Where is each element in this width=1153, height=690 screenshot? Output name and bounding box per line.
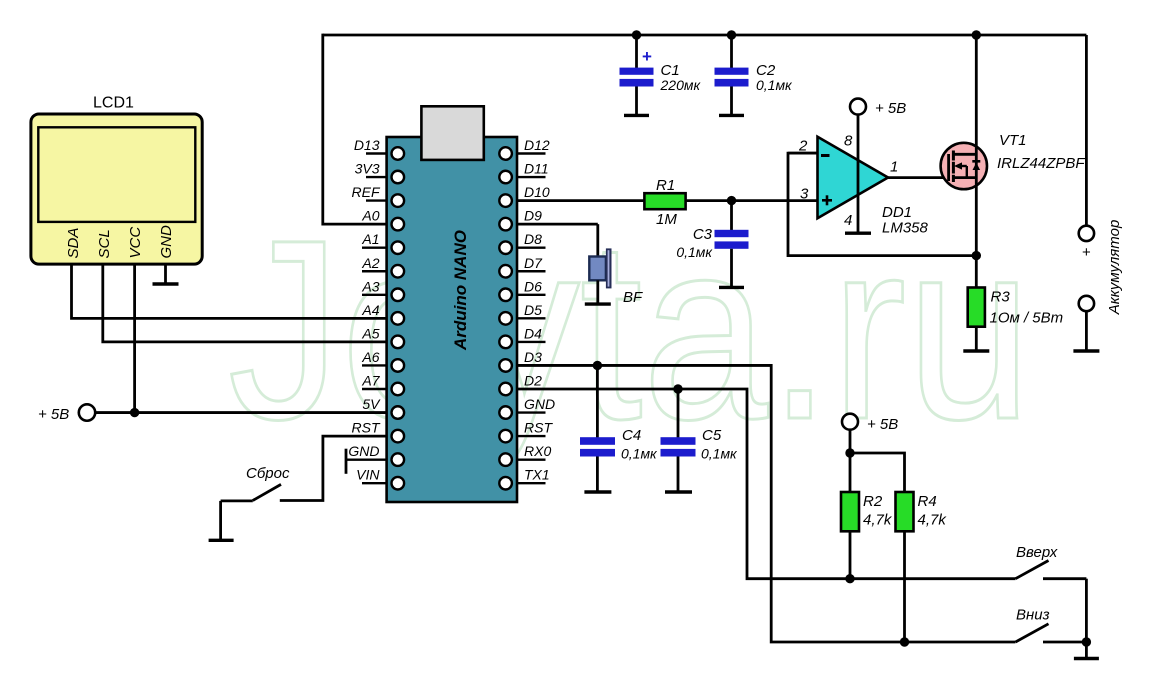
svg-text:A7: A7 — [361, 373, 380, 389]
svg-text:D11: D11 — [524, 161, 549, 177]
LCD1 module — [31, 95, 202, 265]
pin D6 — [517, 278, 546, 295]
resistor R3 — [968, 288, 1063, 351]
pin circles right — [499, 147, 512, 489]
svg-text:D12: D12 — [524, 137, 550, 153]
svg-text:0,1мк: 0,1мк — [701, 446, 738, 462]
pin D4 — [517, 325, 546, 342]
wire R4 bottom — [903, 531, 906, 642]
junction R4 bottom — [900, 637, 909, 646]
buzzer BF — [589, 224, 643, 306]
svg-text:Аккумулятор: Аккумулятор — [1106, 220, 1123, 316]
svg-text:D4: D4 — [524, 325, 542, 341]
svg-text:GND: GND — [524, 396, 555, 412]
transistor VT1 IRLZ44ZPBF — [941, 35, 1086, 288]
junction D2/C5 — [673, 384, 682, 393]
svg-text:IRLZ44ZPBF: IRLZ44ZPBF — [997, 155, 1085, 172]
battery terminal - — [1079, 296, 1094, 351]
pin D13 — [354, 137, 387, 154]
pin RST right — [517, 420, 553, 437]
ground buzzer — [585, 302, 611, 305]
svg-text:A3: A3 — [361, 278, 379, 294]
wire R1 to op-amp pin3 — [686, 199, 818, 202]
svg-text:0,1мк: 0,1мк — [621, 446, 658, 462]
capacitor C1 — [620, 35, 702, 114]
pin A2 — [361, 255, 386, 272]
wire +5V to 5V pin — [95, 411, 386, 414]
svg-text:4: 4 — [844, 212, 852, 229]
svg-text:C4: C4 — [622, 427, 641, 444]
pin A6 — [361, 349, 386, 366]
svg-text:A0: A0 — [361, 208, 379, 224]
pin D2 — [524, 373, 542, 389]
pin A5 — [361, 325, 379, 341]
ground C2 — [719, 114, 744, 117]
capacitor C2 — [715, 35, 794, 114]
pin RST left — [352, 420, 381, 436]
+5V terminal op-amp pin8 — [850, 99, 906, 117]
svg-text:Arduino NANO: Arduino NANO — [451, 230, 470, 351]
wire D3 run — [517, 365, 1016, 642]
pin D8 — [517, 231, 546, 248]
svg-text:4,7k: 4,7k — [918, 512, 948, 529]
svg-text:+: + — [642, 47, 652, 66]
svg-text:8: 8 — [844, 133, 853, 150]
wire rail to battery — [1085, 35, 1088, 226]
svg-text:Вверх: Вверх — [1016, 544, 1058, 561]
wire RST to switch Сброс — [280, 436, 387, 500]
junction R2 bottom — [845, 574, 854, 583]
svg-text:VIN: VIN — [356, 467, 380, 483]
svg-text:D13: D13 — [354, 137, 380, 153]
pin REF — [352, 184, 387, 201]
ground C3 — [719, 286, 744, 289]
wire top +5V rail — [323, 34, 1087, 37]
svg-text:+: + — [1082, 244, 1091, 261]
ground battery — [1073, 349, 1099, 352]
wire LCD GND — [164, 264, 167, 283]
wire +5V to R2 R4 — [849, 430, 852, 492]
Arduino NANO U2 — [387, 106, 517, 502]
svg-text:0,1мк: 0,1мк — [756, 77, 793, 93]
pin A1 — [361, 231, 386, 248]
svg-text:A4: A4 — [361, 302, 379, 318]
pin A7 — [361, 373, 386, 390]
svg-text:+ 5В: + 5В — [38, 406, 69, 423]
pin D7 — [517, 255, 546, 272]
svg-text:RST: RST — [524, 420, 553, 436]
svg-text:BF: BF — [623, 289, 643, 306]
junction buttons/ground — [1082, 637, 1091, 646]
svg-text:D8: D8 — [524, 231, 542, 247]
svg-text:D9: D9 — [524, 208, 542, 224]
pin D3 — [524, 349, 542, 365]
svg-text:4,7k: 4,7k — [863, 512, 893, 529]
switch Вверх — [1016, 544, 1087, 579]
svg-text:REF: REF — [352, 184, 381, 200]
svg-text:1: 1 — [890, 159, 898, 176]
pin D12 — [517, 137, 550, 154]
wire D10 to R1 — [517, 199, 645, 202]
svg-text:VT1: VT1 — [999, 132, 1027, 149]
resistor R1 — [644, 177, 685, 228]
wire R2 bottom — [849, 531, 852, 578]
svg-text:D6: D6 — [524, 278, 542, 294]
junction D3/C4 — [593, 361, 602, 370]
svg-text:DD1: DD1 — [882, 204, 912, 221]
svg-text:3: 3 — [800, 186, 809, 203]
svg-text:C3: C3 — [693, 226, 713, 243]
svg-text:SCL: SCL — [96, 229, 113, 258]
switch Сброс — [221, 465, 290, 501]
pin 3V3 — [355, 161, 387, 178]
wire D2 run — [517, 389, 1016, 579]
svg-text:R2: R2 — [863, 493, 883, 510]
battery terminal + — [1079, 226, 1094, 261]
pin A4 — [361, 302, 379, 318]
wire buttons right vertical — [1085, 579, 1088, 642]
junction rail MOSFET drain — [972, 30, 981, 39]
pin RX0 — [517, 443, 551, 460]
+5V terminal R2/R4 — [842, 414, 898, 433]
svg-text:1Ом / 5Вт: 1Ом / 5Вт — [990, 310, 1064, 327]
ground LCD — [153, 282, 179, 285]
junction R1/C3 — [727, 196, 736, 205]
resistor R2 — [841, 492, 893, 531]
svg-text:LCD1: LCD1 — [93, 95, 134, 112]
svg-text:GND: GND — [348, 443, 379, 459]
wire VCC down — [133, 264, 136, 413]
capacitor C3 — [676, 201, 748, 287]
junction C2 top — [727, 30, 736, 39]
switch Вниз — [1016, 607, 1087, 643]
svg-text:D10: D10 — [524, 184, 550, 200]
svg-text:D7: D7 — [524, 255, 543, 271]
svg-text:C5: C5 — [702, 427, 722, 444]
junction C1 top — [632, 30, 641, 39]
svg-text:TX1: TX1 — [524, 467, 550, 483]
svg-text:Вниз: Вниз — [1016, 607, 1050, 624]
svg-text:D5: D5 — [524, 302, 542, 318]
pin GND left — [346, 443, 387, 474]
svg-text:A5: A5 — [361, 325, 379, 341]
svg-text:0,1мк: 0,1мк — [676, 244, 713, 260]
svg-text:GND: GND — [158, 225, 175, 259]
svg-text:LM358: LM358 — [882, 220, 929, 237]
svg-text:A1: A1 — [361, 231, 379, 247]
wire SDA to A4 — [72, 264, 387, 318]
capacitor C5 — [661, 389, 739, 491]
svg-text:D2: D2 — [524, 373, 542, 389]
pin D10 — [524, 184, 550, 200]
pin D5 — [517, 302, 546, 319]
op-amp U1 DD1 LM358 — [788, 115, 929, 237]
svg-text:R1: R1 — [656, 177, 675, 194]
pin circles left — [392, 147, 405, 489]
ground Сброс — [209, 539, 234, 542]
svg-text:1M: 1M — [656, 211, 677, 228]
junction VCC/5V — [130, 408, 139, 417]
ground C4 — [584, 490, 611, 493]
svg-text:+ 5В: + 5В — [875, 100, 906, 117]
svg-text:3V3: 3V3 — [355, 161, 380, 177]
svg-text:+ 5В: + 5В — [867, 416, 898, 433]
resistor R4 — [896, 492, 948, 531]
pin D9 — [517, 208, 598, 225]
svg-text:RST: RST — [352, 420, 381, 436]
pin VIN — [356, 467, 386, 484]
pin GND right — [517, 396, 555, 413]
svg-text:SDA: SDA — [65, 228, 82, 259]
wire Сброс to ground — [219, 501, 222, 540]
ground buttons — [1074, 642, 1099, 659]
pin TX1 — [517, 467, 550, 484]
svg-text:5V: 5V — [362, 396, 381, 412]
junction R2/R4 top — [845, 448, 854, 457]
wire SCL to A5 — [103, 264, 387, 342]
svg-text:D3: D3 — [524, 349, 542, 365]
+5V terminal left — [38, 404, 95, 423]
pin D11 — [517, 161, 549, 178]
ground C1 — [624, 114, 649, 117]
svg-text:Сброс: Сброс — [246, 465, 290, 482]
svg-text:VCC: VCC — [127, 227, 144, 259]
pin A3 — [361, 278, 386, 295]
svg-text:R4: R4 — [918, 493, 937, 510]
svg-text:RX0: RX0 — [524, 443, 551, 459]
junction source node — [972, 251, 981, 260]
wire rail left down to A0 — [323, 34, 387, 225]
ground R3 — [963, 349, 989, 352]
wire feedback pin2 to source node — [788, 153, 976, 256]
svg-text:A2: A2 — [361, 255, 379, 271]
capacitor C4 — [580, 365, 658, 491]
svg-text:R3: R3 — [991, 289, 1011, 306]
svg-text:A6: A6 — [361, 349, 379, 365]
svg-text:220мк: 220мк — [660, 77, 702, 93]
wire op-amp output to MOSFET gate — [888, 176, 949, 179]
pin 5V — [362, 396, 381, 412]
pin A0 — [361, 208, 379, 224]
ground op-amp pin4 — [845, 231, 871, 234]
ground C5 — [665, 490, 692, 493]
